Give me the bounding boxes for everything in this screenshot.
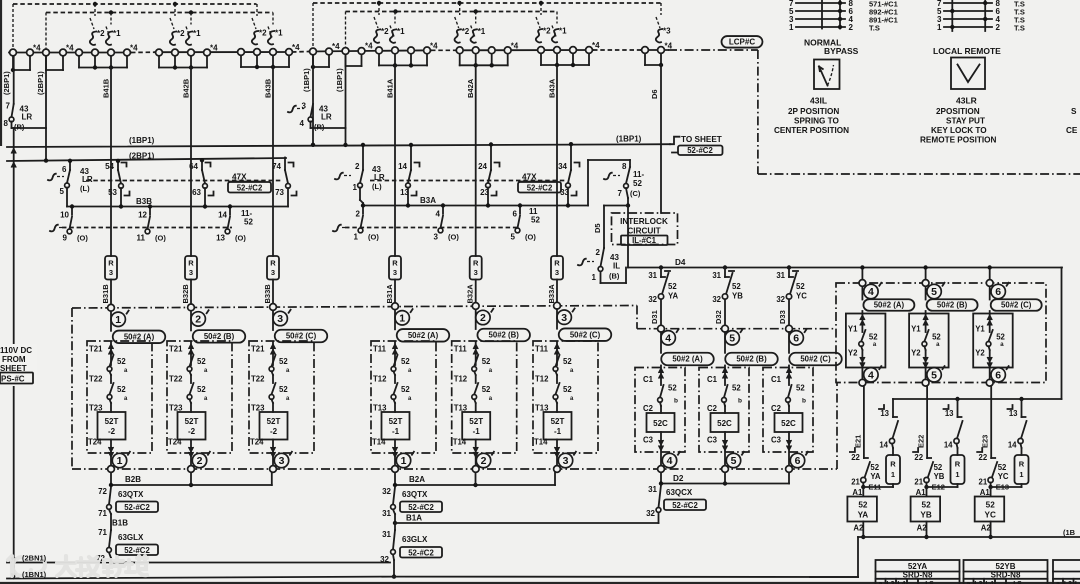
svg-text:5: 5 bbox=[729, 333, 735, 345]
svg-text:52T: 52T bbox=[105, 417, 119, 426]
wire dashed linkage B (O) row bbox=[50, 225, 58, 232]
svg-text:*1: *1 bbox=[193, 29, 201, 38]
contact 64-63 bbox=[201, 160, 203, 170]
svg-text:52: 52 bbox=[633, 179, 642, 188]
wire B2B bbox=[110, 472, 112, 485]
svg-text:50#2 (B): 50#2 (B) bbox=[204, 332, 235, 341]
svg-text:Y2: Y2 bbox=[911, 349, 921, 358]
node bottom terminal 5 (52C B) bbox=[726, 453, 740, 467]
wire dashed bus L2 (B-section) bbox=[46, 12, 273, 14]
svg-text:C2: C2 bbox=[643, 404, 654, 413]
contact 2-1 (O) bbox=[362, 206, 364, 214]
svg-text:52: 52 bbox=[996, 333, 1005, 342]
svg-text:R: R bbox=[473, 259, 479, 268]
svg-text:(2BP1): (2BP1) bbox=[2, 71, 11, 95]
svg-text:52T: 52T bbox=[185, 417, 199, 426]
node bottom terminal 2 (B42A) bbox=[476, 453, 490, 467]
switch 43LR position box bbox=[951, 58, 985, 90]
wire D2 bbox=[660, 472, 662, 483]
svg-text:B41A: B41A bbox=[386, 78, 395, 98]
svg-text:Y2: Y2 bbox=[848, 349, 858, 358]
svg-text:T21: T21 bbox=[251, 345, 265, 354]
wire dash-dot panel top edge bbox=[72, 306, 637, 309]
svg-text:1: 1 bbox=[354, 233, 359, 242]
svg-text:110V DC: 110V DC bbox=[0, 346, 32, 355]
svg-text:5: 5 bbox=[60, 187, 65, 196]
svg-text:14: 14 bbox=[1008, 441, 1017, 450]
svg-text:52: 52 bbox=[869, 333, 878, 342]
interlock circuit box bbox=[612, 213, 678, 245]
svg-text:-2: -2 bbox=[188, 427, 196, 436]
svg-text:6: 6 bbox=[513, 210, 518, 219]
svg-text:12: 12 bbox=[138, 211, 147, 220]
svg-text:T12: T12 bbox=[454, 375, 468, 384]
node D32 terminal 5 bbox=[722, 325, 729, 332]
svg-text:52-#C2: 52-#C2 bbox=[408, 503, 434, 512]
switch 43LR(L) A-side 2-1 bbox=[362, 145, 364, 170]
node D31 terminal 4 bbox=[658, 325, 665, 332]
feeder B42A middle (R3, terminal 2, 50#2 B) bbox=[475, 65, 477, 256]
svg-text:14: 14 bbox=[944, 441, 953, 450]
svg-text:CE: CE bbox=[1066, 126, 1078, 135]
svg-text:*1: *1 bbox=[559, 27, 567, 36]
svg-text:*1: *1 bbox=[275, 29, 283, 38]
svg-text:21: 21 bbox=[979, 478, 988, 487]
svg-text:32: 32 bbox=[646, 509, 655, 518]
svg-text:31: 31 bbox=[382, 509, 391, 518]
svg-text:T12: T12 bbox=[535, 375, 549, 384]
svg-text:T22: T22 bbox=[89, 375, 103, 384]
svg-text:C3: C3 bbox=[707, 436, 718, 445]
svg-text:52: 52 bbox=[796, 384, 805, 393]
svg-text:22: 22 bbox=[979, 453, 988, 462]
wire dash-dot panel left edge bbox=[71, 308, 73, 469]
svg-text:52: 52 bbox=[482, 385, 491, 394]
feeder group B43A top terminals bbox=[540, 53, 542, 65]
svg-text:(1BP1): (1BP1) bbox=[335, 68, 344, 92]
svg-text:R: R bbox=[392, 259, 398, 268]
junction D4 YA bbox=[659, 265, 663, 269]
unit 52C (C) closing block bbox=[763, 368, 813, 453]
svg-text:(O): (O) bbox=[368, 233, 379, 242]
svg-text:52-#C2: 52-#C2 bbox=[408, 548, 434, 557]
svg-text:50#2 (A): 50#2 (A) bbox=[874, 301, 905, 310]
svg-text:3: 3 bbox=[474, 268, 478, 277]
svg-text:D33: D33 bbox=[778, 310, 787, 324]
feeder B41A middle (R3, terminal 1, 50#2 A) bbox=[394, 65, 396, 256]
svg-text:3: 3 bbox=[434, 233, 439, 242]
svg-text:4: 4 bbox=[300, 119, 305, 128]
svg-text:72: 72 bbox=[98, 487, 107, 496]
junction on L2 at B42B bbox=[189, 10, 193, 14]
svg-text:50#2 (B): 50#2 (B) bbox=[736, 355, 767, 364]
svg-text:14: 14 bbox=[879, 441, 888, 450]
label 110V DC FROM SHEET PS-#C bbox=[0, 344, 37, 386]
svg-text:32: 32 bbox=[712, 295, 721, 304]
svg-text:7: 7 bbox=[6, 102, 11, 111]
svg-text:3: 3 bbox=[277, 313, 283, 325]
svg-text:T.S: T.S bbox=[869, 23, 880, 32]
svg-text:T21: T21 bbox=[89, 345, 103, 354]
junction on L1 at B42B bbox=[173, 2, 177, 6]
node terminal pair 1BP1-a bbox=[312, 55, 314, 67]
svg-text:(O): (O) bbox=[77, 234, 88, 243]
svg-text:T12: T12 bbox=[373, 375, 387, 384]
contact 8-7 11-52(C) bbox=[588, 159, 630, 161]
svg-text:Y1: Y1 bbox=[848, 325, 858, 334]
svg-text:R: R bbox=[554, 259, 560, 268]
svg-text:13: 13 bbox=[1009, 409, 1018, 418]
svg-text:63: 63 bbox=[192, 188, 201, 197]
wire 63GLX to 2BN1 bbox=[109, 553, 111, 559]
svg-text:50#2 (C): 50#2 (C) bbox=[570, 330, 601, 339]
svg-text:(O): (O) bbox=[525, 233, 536, 242]
svg-text:52: 52 bbox=[732, 384, 741, 393]
svg-text:*4: *4 bbox=[511, 41, 519, 50]
svg-text:T.S: T.S bbox=[1014, 23, 1025, 32]
svg-text:52: 52 bbox=[401, 357, 410, 366]
svg-text:T14: T14 bbox=[534, 438, 548, 447]
unit 52T-2 (B) breaker block bbox=[167, 341, 232, 453]
junction D4 YC bbox=[787, 265, 791, 269]
svg-text:-2: -2 bbox=[270, 427, 278, 436]
svg-text:B31B: B31B bbox=[101, 284, 110, 304]
svg-text:(O): (O) bbox=[155, 234, 166, 243]
svg-text:*4: *4 bbox=[365, 42, 373, 51]
feeder B41B middle (R3, terminal 1, 50#2 A) bbox=[110, 68, 112, 257]
wire dashed linkage A contacts bbox=[370, 180, 565, 182]
svg-text:*2: *2 bbox=[381, 27, 389, 36]
svg-text:52: 52 bbox=[668, 282, 677, 291]
svg-text:52-#C2: 52-#C2 bbox=[124, 546, 150, 555]
svg-text:52T: 52T bbox=[267, 417, 281, 426]
svg-text:*4: *4 bbox=[66, 44, 74, 53]
svg-text:B2A: B2A bbox=[409, 475, 425, 484]
svg-text:KEY LOCK TO: KEY LOCK TO bbox=[931, 126, 987, 135]
junction on L2A at B42A bbox=[474, 9, 478, 13]
unit 52T-1 (A) breaker block bbox=[371, 341, 436, 453]
svg-text:T11: T11 bbox=[454, 345, 468, 354]
svg-text:52C: 52C bbox=[653, 419, 668, 428]
svg-text:52: 52 bbox=[531, 216, 540, 225]
wire interlock to D4 bbox=[627, 206, 629, 268]
svg-text:T11: T11 bbox=[373, 345, 387, 354]
svg-text:C3: C3 bbox=[643, 436, 654, 445]
svg-text:*3: *3 bbox=[663, 27, 671, 36]
contact 12-11 (O) bbox=[149, 207, 151, 215]
svg-text:IL: IL bbox=[613, 262, 620, 271]
svg-text:3: 3 bbox=[555, 268, 559, 277]
scan edge left bbox=[0, 0, 2, 146]
svg-text:B31A: B31A bbox=[385, 284, 394, 304]
svg-text:50#2 (A): 50#2 (A) bbox=[408, 331, 439, 340]
svg-text:52: 52 bbox=[563, 357, 572, 366]
svg-text:1: 1 bbox=[115, 314, 121, 326]
svg-text:3: 3 bbox=[189, 268, 193, 277]
svg-text:(R): (R) bbox=[314, 123, 325, 132]
relay 52YA coil branch bbox=[863, 386, 865, 458]
svg-text:(O): (O) bbox=[235, 234, 246, 243]
svg-text:1: 1 bbox=[592, 273, 597, 282]
svg-text:4: 4 bbox=[868, 286, 874, 298]
svg-text:(2BN1): (2BN1) bbox=[22, 554, 47, 563]
svg-text:52T: 52T bbox=[469, 417, 483, 426]
svg-text:*4: *4 bbox=[430, 41, 438, 50]
svg-text:31: 31 bbox=[648, 271, 657, 280]
svg-text:C1: C1 bbox=[771, 375, 782, 384]
svg-text:1: 1 bbox=[117, 455, 123, 467]
svg-text:LR: LR bbox=[321, 113, 332, 122]
junction B3A-D5 bbox=[626, 203, 630, 207]
contact 74-73 bbox=[284, 158, 286, 171]
svg-text:6: 6 bbox=[795, 455, 801, 467]
table 52YC SRD-N8 (cut) bbox=[1053, 560, 1080, 584]
junction on L1A at B41A bbox=[377, 1, 381, 5]
svg-text:1: 1 bbox=[353, 183, 358, 192]
svg-text:BYPASS: BYPASS bbox=[824, 46, 859, 56]
svg-text:1: 1 bbox=[789, 23, 794, 32]
junction on L1 at B41B bbox=[93, 2, 97, 6]
bus 1BP1 bbox=[7, 144, 670, 147]
svg-text:S: S bbox=[1071, 107, 1077, 116]
svg-text:52: 52 bbox=[117, 357, 126, 366]
svg-text:52: 52 bbox=[870, 463, 879, 472]
svg-text:52: 52 bbox=[796, 282, 805, 291]
svg-text:1: 1 bbox=[399, 313, 405, 325]
svg-text:9: 9 bbox=[63, 234, 68, 243]
table 52YB SRD-N8 bbox=[964, 560, 1048, 584]
svg-text:CIRCUIT: CIRCUIT bbox=[627, 227, 660, 236]
svg-text:C3: C3 bbox=[771, 436, 782, 445]
node bottom terminal 4 (52C A) bbox=[662, 453, 676, 467]
svg-text:D4: D4 bbox=[675, 258, 686, 267]
svg-text:50#2 (A): 50#2 (A) bbox=[124, 332, 155, 341]
svg-text:63GLX: 63GLX bbox=[118, 533, 144, 542]
node terminal pair D6 bbox=[644, 53, 646, 65]
junction on L2A at B41A bbox=[393, 9, 397, 13]
svg-text:63QTX: 63QTX bbox=[118, 490, 144, 499]
svg-text:32: 32 bbox=[648, 295, 657, 304]
svg-text:1: 1 bbox=[937, 23, 942, 32]
svg-text:T14: T14 bbox=[372, 438, 386, 447]
svg-text:(L): (L) bbox=[80, 184, 90, 193]
svg-text:R: R bbox=[188, 259, 194, 268]
svg-text:2: 2 bbox=[996, 23, 1001, 32]
svg-text:T22: T22 bbox=[251, 375, 265, 384]
svg-text:*2: *2 bbox=[462, 27, 470, 36]
unit 52YC trip coils block bbox=[986, 280, 993, 287]
svg-text:(1BP1): (1BP1) bbox=[129, 136, 155, 145]
node bottom terminal 3 (B43B) bbox=[274, 453, 288, 467]
svg-text:63GLX: 63GLX bbox=[402, 535, 428, 544]
wire left supply riser lower bbox=[13, 128, 15, 578]
svg-text:Y2: Y2 bbox=[975, 349, 985, 358]
wire D6 drop bbox=[660, 65, 662, 213]
svg-text:B32B: B32B bbox=[181, 284, 190, 304]
svg-text:52C: 52C bbox=[781, 419, 796, 428]
svg-text:71: 71 bbox=[98, 528, 107, 537]
svg-text:B41B: B41B bbox=[102, 78, 111, 98]
wire dashed riser L1A to terminal 313 bbox=[312, 3, 314, 48]
svg-text:Y1: Y1 bbox=[975, 325, 985, 334]
svg-text:R: R bbox=[955, 460, 961, 469]
svg-text:4: 4 bbox=[667, 455, 673, 467]
wire dashed riser L2 to terminal 46 bbox=[45, 13, 47, 49]
svg-text:32: 32 bbox=[776, 295, 785, 304]
svg-text:2: 2 bbox=[356, 210, 361, 219]
unit 52T-1 (B) breaker block bbox=[452, 341, 517, 453]
wire dashed bus L2A (A-section) bbox=[346, 11, 558, 13]
feeder B42B middle (R3, terminal 2, 50#2 B) bbox=[190, 68, 192, 257]
svg-text:52-#C2: 52-#C2 bbox=[237, 184, 263, 193]
svg-text:*1: *1 bbox=[113, 29, 121, 38]
wire B3B bbox=[67, 206, 288, 208]
svg-text:PS-#C: PS-#C bbox=[1, 375, 25, 384]
wire terminal row line bbox=[9, 52, 131, 54]
arrow TO SHEET 52-#C2 bbox=[670, 137, 680, 153]
contact 14-13 bbox=[410, 145, 412, 170]
wire dashed riser L2A to terminal 345 bbox=[345, 12, 347, 48]
feeder group B43B top terminals bbox=[240, 55, 242, 67]
bus D4 bbox=[628, 267, 1062, 269]
svg-text:73: 73 bbox=[275, 188, 284, 197]
svg-text:*4: *4 bbox=[332, 42, 340, 51]
svg-text:D6: D6 bbox=[650, 89, 659, 99]
svg-text:B43A: B43A bbox=[548, 78, 557, 98]
svg-text:31: 31 bbox=[776, 271, 785, 280]
svg-text:*4: *4 bbox=[292, 43, 300, 52]
bus 1BN1 bbox=[7, 577, 394, 579]
node bottom terminal 2 (B42B) bbox=[192, 453, 206, 467]
svg-text:B1B: B1B bbox=[112, 519, 128, 528]
arrow into 2BP1 bbox=[11, 163, 16, 168]
svg-text:21: 21 bbox=[914, 478, 923, 487]
svg-text:*4: *4 bbox=[33, 44, 41, 53]
svg-text:T24: T24 bbox=[250, 438, 264, 447]
svg-text:1: 1 bbox=[1019, 470, 1023, 479]
svg-text:LCP#C: LCP#C bbox=[729, 37, 755, 46]
svg-text:(R): (R) bbox=[14, 123, 25, 132]
svg-text:7: 7 bbox=[618, 189, 623, 198]
svg-text:50#2 (A): 50#2 (A) bbox=[672, 355, 703, 364]
svg-text:B42B: B42B bbox=[182, 78, 191, 98]
wire dashed linkage A (O) row bbox=[333, 225, 341, 232]
svg-text:(1BN1): (1BN1) bbox=[22, 570, 47, 579]
svg-text:-1: -1 bbox=[554, 427, 562, 436]
svg-text:52: 52 bbox=[197, 385, 206, 394]
svg-text:R: R bbox=[108, 259, 114, 268]
svg-text:13: 13 bbox=[880, 409, 889, 418]
node bottom terminal 1 (B41B) bbox=[112, 453, 126, 467]
svg-text:D31: D31 bbox=[650, 310, 659, 324]
svg-text:b: b bbox=[738, 398, 742, 405]
svg-text:4: 4 bbox=[436, 210, 441, 219]
svg-text:52T: 52T bbox=[389, 417, 403, 426]
svg-text:52: 52 bbox=[401, 385, 410, 394]
svg-text:2: 2 bbox=[481, 455, 487, 467]
svg-text:50#2 (C): 50#2 (C) bbox=[1001, 301, 1032, 310]
svg-text:2: 2 bbox=[596, 248, 601, 257]
svg-text:13: 13 bbox=[216, 234, 225, 243]
svg-text:52-#C2: 52-#C2 bbox=[527, 184, 553, 193]
svg-text:8: 8 bbox=[4, 119, 9, 128]
svg-text:YB: YB bbox=[732, 292, 743, 301]
svg-text:E23: E23 bbox=[981, 435, 990, 448]
wire terminal 46 to 2BP1 bbox=[45, 56, 47, 128]
node D33 terminal 6 bbox=[786, 325, 793, 332]
svg-text:10: 10 bbox=[60, 211, 69, 220]
svg-text:52: 52 bbox=[934, 463, 943, 472]
svg-text:11-: 11- bbox=[633, 170, 644, 179]
svg-text:E22: E22 bbox=[917, 435, 926, 448]
svg-text:LR: LR bbox=[82, 175, 93, 184]
bus 2BN1 bbox=[7, 562, 390, 564]
svg-text:b: b bbox=[802, 398, 806, 405]
wire D5 branch bbox=[604, 205, 628, 207]
junction pair loop a bbox=[11, 68, 15, 72]
svg-text:CENTER POSITION: CENTER POSITION bbox=[774, 126, 849, 135]
svg-text:52: 52 bbox=[244, 218, 253, 227]
wire dash-dot panel boundary vertical bbox=[757, 50, 759, 174]
svg-text:B33A: B33A bbox=[547, 284, 556, 304]
svg-text:C2: C2 bbox=[707, 404, 718, 413]
svg-text:B3A: B3A bbox=[420, 196, 436, 205]
svg-text:(B): (B) bbox=[609, 272, 620, 281]
junction pair loop c bbox=[311, 65, 315, 69]
wire B1B bbox=[109, 510, 111, 515]
svg-text:YB: YB bbox=[934, 472, 945, 481]
svg-text:(C): (C) bbox=[630, 189, 641, 198]
svg-text:1: 1 bbox=[891, 470, 895, 479]
svg-text:YA: YA bbox=[858, 511, 869, 520]
feeder group B42B top terminals bbox=[158, 56, 160, 68]
svg-text:B2B: B2B bbox=[125, 475, 141, 484]
svg-text:52: 52 bbox=[279, 385, 288, 394]
wire dashed bus L1A (A-section) bbox=[313, 2, 661, 4]
svg-text:31: 31 bbox=[648, 485, 657, 494]
svg-text:53: 53 bbox=[108, 188, 117, 197]
node terminal pair 1BP1-b bbox=[345, 54, 347, 66]
unit 52T-2 (C) breaker block bbox=[249, 341, 314, 453]
svg-text:(O): (O) bbox=[448, 233, 459, 242]
panel dash-dot box 52Y bbox=[836, 283, 1046, 383]
node bottom terminal 1 (B41A) bbox=[396, 453, 410, 467]
svg-text:71: 71 bbox=[98, 509, 107, 518]
svg-text:-1: -1 bbox=[392, 427, 400, 436]
svg-text:YC: YC bbox=[998, 472, 1009, 481]
svg-text:D2: D2 bbox=[673, 474, 684, 483]
unit 52YB trip coils block bbox=[922, 280, 929, 287]
svg-text:1: 1 bbox=[401, 455, 407, 467]
svg-text:C2: C2 bbox=[771, 404, 782, 413]
switch 43IL position box bbox=[814, 60, 840, 90]
svg-text:2: 2 bbox=[355, 162, 360, 171]
svg-text:32: 32 bbox=[382, 487, 391, 496]
svg-text:13: 13 bbox=[945, 409, 954, 418]
contact 54-53 bbox=[117, 161, 119, 170]
wire B3A bbox=[363, 205, 588, 207]
svg-text:LR: LR bbox=[22, 113, 33, 122]
switch curl *3 on D6 bbox=[660, 3, 662, 15]
svg-text:2POSITION: 2POSITION bbox=[936, 107, 980, 116]
contact 10-9 (O) bbox=[71, 207, 73, 215]
svg-text:STAY PUT: STAY PUT bbox=[946, 117, 985, 126]
svg-text:*4: *4 bbox=[592, 41, 600, 50]
contact 24-23 bbox=[490, 145, 492, 171]
wire B1A bbox=[393, 510, 395, 515]
contact 6-5 (O) bbox=[519, 206, 521, 214]
unit 52C (B) closing block bbox=[699, 368, 749, 453]
